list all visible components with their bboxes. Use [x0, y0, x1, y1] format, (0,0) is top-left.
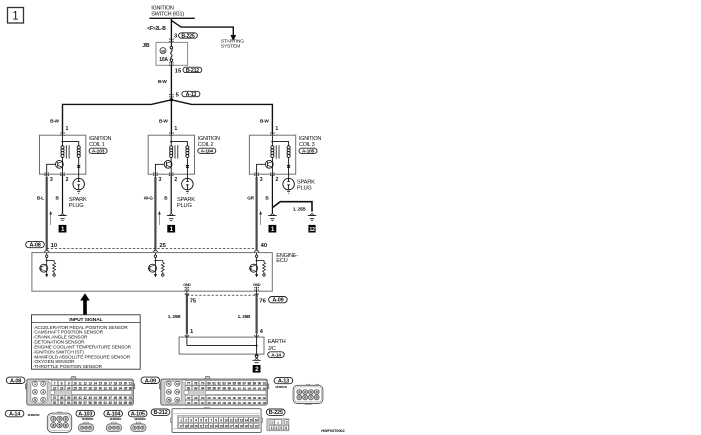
earth J/C pin 1 crossing feet	[185, 335, 187, 337]
connector label B-225	[179, 33, 198, 38]
svg-text:40: 40	[73, 396, 77, 400]
connector B-212 crossing mark	[169, 62, 170, 63]
connector A-08 round pin panel	[31, 381, 47, 403]
coil 1 secondary winding	[63, 142, 79, 146]
connector label A-08	[26, 241, 45, 247]
svg-text:GND: GND	[183, 283, 191, 287]
coil 2 internal node	[170, 135, 172, 141]
coil 3 base wire to pin 3	[257, 164, 266, 174]
ignition coil 1 box	[40, 135, 86, 174]
svg-text:<F>2L-B: <F>2L-B	[147, 26, 166, 32]
svg-text:25: 25	[159, 243, 166, 249]
svg-text:PLUG: PLUG	[297, 185, 312, 191]
svg-text:1. 25B: 1. 25B	[293, 206, 306, 211]
svg-text:79: 79	[201, 381, 205, 385]
connector label A-09	[141, 377, 160, 383]
connector label A-13	[182, 91, 200, 96]
earth J/C exit terminal	[255, 354, 257, 356]
svg-text:72: 72	[176, 382, 180, 386]
svg-text:71: 71	[167, 382, 171, 386]
svg-text:32: 32	[255, 424, 258, 428]
connector label A-104	[104, 410, 123, 416]
connector label A-103	[89, 148, 107, 153]
ground point 12	[308, 225, 315, 233]
svg-text:26: 26	[225, 424, 228, 428]
svg-text:3: 3	[34, 390, 36, 394]
svg-text:A-105: A-105	[302, 149, 315, 155]
svg-text:GR: GR	[247, 196, 254, 201]
connector A-105 body	[136, 422, 140, 424]
ECU driver input terminal at pin	[46, 253, 48, 255]
svg-text:21: 21	[199, 424, 202, 428]
svg-text:2: 2	[42, 382, 44, 386]
junction block J/B box	[156, 42, 188, 65]
wire branch to starting system	[171, 20, 233, 36]
svg-text:10: 10	[73, 381, 77, 385]
svg-text:3: 3	[260, 177, 263, 183]
coil 1 base wire to pin 3	[47, 164, 56, 174]
svg-text:47: 47	[109, 396, 113, 400]
svg-text:13: 13	[88, 381, 92, 385]
spark plug 1 ground	[77, 191, 80, 193]
ECU driver emitter arrow	[45, 274, 48, 277]
svg-text:14: 14	[245, 418, 248, 422]
arrow to starting system	[231, 35, 236, 40]
svg-text:42: 42	[83, 396, 87, 400]
coil 3 primary winding	[271, 142, 273, 146]
engine ECU box	[32, 253, 272, 292]
svg-text:4: 4	[42, 390, 44, 394]
ground point 2	[253, 365, 261, 373]
svg-text:81: 81	[212, 381, 216, 385]
connector B-225 body	[267, 419, 289, 431]
svg-text:PLUG: PLUG	[69, 203, 84, 209]
coil 2 secondary winding	[171, 142, 187, 146]
connector label A-105	[299, 148, 317, 153]
svg-text:5: 5	[280, 426, 282, 430]
input signal arrow to ECU	[80, 293, 90, 300]
svg-text:63: 63	[114, 401, 118, 405]
connector A-09 dashed boundary	[187, 294, 257, 296]
ignition switch bus bar	[149, 17, 194, 19]
svg-text:24: 24	[67, 386, 71, 390]
svg-text:16: 16	[103, 381, 107, 385]
svg-text:12: 12	[83, 381, 87, 385]
svg-text:39: 39	[67, 396, 71, 400]
coil 2 pin 1 crossing mark	[169, 132, 170, 133]
coil 1 core	[65, 145, 67, 158]
ECU driver input terminal at pin	[154, 253, 156, 255]
svg-text:10A: 10A	[159, 57, 168, 63]
svg-text:23: 23	[209, 424, 212, 428]
spark plug 1	[73, 178, 85, 190]
svg-text:46: 46	[103, 396, 107, 400]
ECU driver base lead	[39, 267, 41, 269]
coil 1 internal node	[62, 135, 64, 141]
svg-text:10: 10	[225, 418, 228, 422]
svg-text:1. 25B: 1. 25B	[238, 314, 251, 319]
svg-text:20: 20	[194, 424, 197, 428]
svg-text:A-105: A-105	[131, 412, 145, 418]
coil 2 base wire to pin 3	[155, 164, 164, 174]
spark plug 3 wire	[288, 174, 290, 178]
coil 1 harness direction arrow	[50, 214, 52, 226]
connector B-225 pin grid	[270, 420, 274, 425]
ground wire 1.25B from ECU x=186.9	[186, 291, 188, 295]
wire B-W from fuse	[170, 65, 172, 100]
spark plug 2	[182, 178, 194, 190]
connector A-09 pin grid	[185, 381, 191, 385]
svg-text:12: 12	[235, 418, 238, 422]
svg-text:95: 95	[207, 386, 211, 390]
svg-text:30: 30	[245, 424, 248, 428]
svg-text:GND: GND	[253, 283, 261, 287]
connector label A-14 (inline)	[268, 352, 284, 358]
ECU driver transistor	[256, 261, 258, 275]
svg-text:1: 1	[65, 126, 68, 132]
ECU driver transistor	[46, 261, 48, 275]
coil 2 ground symbol	[169, 213, 173, 215]
svg-text:1. 25B: 1. 25B	[168, 314, 181, 319]
coil 3 core	[275, 145, 277, 158]
svg-text:94: 94	[201, 386, 205, 390]
wire from ignition switch	[170, 18, 172, 42]
ECU pin 40 connector feet	[254, 250, 256, 252]
connector A-103 pins	[80, 426, 84, 430]
svg-text:MU803749: MU803749	[276, 385, 288, 389]
svg-text:24: 24	[214, 424, 217, 428]
svg-text:5: 5	[34, 398, 36, 402]
connector B-212 pin grid	[177, 415, 259, 428]
svg-text:54: 54	[67, 401, 71, 405]
connector A-08 round pins	[33, 382, 38, 387]
svg-text:STARTING: STARTING	[221, 39, 244, 45]
spark plug 2 ground	[186, 191, 189, 193]
svg-text:A-09: A-09	[145, 378, 156, 384]
svg-text:15: 15	[98, 381, 102, 385]
svg-text:19: 19	[119, 381, 123, 385]
svg-text:SYSTEM: SYSTEM	[221, 44, 240, 50]
svg-text:1: 1	[190, 329, 193, 335]
svg-text:15: 15	[175, 68, 182, 74]
coil 1 pin 1 crossing mark	[60, 132, 61, 133]
svg-text:1: 1	[174, 126, 177, 132]
svg-text:66: 66	[129, 401, 133, 405]
connector A-103 body	[84, 422, 88, 424]
connector A-104 pins	[108, 426, 112, 430]
svg-text:B-225: B-225	[269, 410, 283, 416]
svg-text:SWITCH (IG1): SWITCH (IG1)	[151, 11, 184, 17]
coil 2 harness direction arrow	[158, 214, 160, 226]
svg-text:75: 75	[190, 299, 197, 305]
connector A-105 pins	[133, 426, 137, 430]
coil 3 pin 2 crossing mark	[270, 172, 271, 173]
svg-text:38: 38	[60, 396, 64, 400]
connector A-09 round pin panel	[165, 381, 181, 403]
ground branch wire 1.25B to ground 12	[272, 202, 312, 212]
connector A-09 body	[205, 376, 211, 379]
svg-text:52: 52	[53, 401, 57, 405]
connector label A-103	[76, 410, 95, 416]
svg-text:85: 85	[232, 381, 236, 385]
svg-text:29: 29	[93, 386, 97, 390]
svg-text:HWF03T0062: HWF03T0062	[321, 428, 345, 433]
svg-text:21: 21	[129, 381, 133, 385]
svg-text:29: 29	[240, 424, 243, 428]
coil 3 pin 3 crossing mark	[254, 172, 255, 173]
svg-text:B: B	[265, 196, 269, 201]
svg-text:2: 2	[66, 177, 69, 183]
connector A-08 pin grid	[51, 381, 57, 385]
svg-text:91: 91	[263, 381, 267, 385]
ground wire 1.25B from ECU x=256.6	[256, 291, 258, 295]
svg-text:83: 83	[222, 381, 226, 385]
ECU driver base lead	[249, 267, 251, 269]
coil 3 pin 1 crossing mark	[270, 132, 271, 133]
coil 2 power transistor	[170, 157, 172, 174]
ECU pin 10 connector feet	[44, 250, 46, 252]
svg-text:27: 27	[83, 386, 87, 390]
coil 3 ground symbol	[270, 213, 274, 215]
coil 2 ground wire B	[170, 174, 172, 213]
connector A-08 mold details	[48, 380, 51, 383]
svg-text:44: 44	[93, 396, 97, 400]
svg-text:MU802790: MU802790	[28, 413, 40, 417]
spark plug 3 ground	[287, 191, 290, 193]
connector label A-13	[274, 377, 293, 383]
svg-text:6: 6	[42, 398, 44, 402]
svg-text:22: 22	[204, 424, 207, 428]
svg-text:6: 6	[285, 426, 287, 430]
connector A-104 body	[112, 422, 116, 424]
svg-text:COIL 1: COIL 1	[89, 142, 105, 148]
svg-text:A-09: A-09	[272, 298, 283, 304]
svg-text:B-212: B-212	[154, 410, 168, 416]
svg-text:56: 56	[78, 401, 82, 405]
svg-text:20: 20	[124, 381, 128, 385]
svg-text:J/C: J/C	[268, 346, 276, 352]
svg-text:84: 84	[227, 381, 231, 385]
connector label A-14	[5, 410, 24, 416]
svg-text:99: 99	[227, 386, 231, 390]
svg-text:27: 27	[230, 424, 233, 428]
coil 1 ground symbol	[60, 213, 64, 215]
connector B-212 body	[204, 407, 211, 409]
svg-text:B-W: B-W	[159, 119, 168, 124]
svg-text:80: 80	[207, 381, 211, 385]
connector A-08 dashed boundary	[47, 248, 257, 250]
junction node of B-W feed	[170, 98, 173, 101]
svg-text:22: 22	[53, 386, 57, 390]
svg-text:86: 86	[237, 381, 241, 385]
connector label B-225	[266, 409, 285, 415]
svg-text:25: 25	[220, 424, 223, 428]
svg-text:23: 23	[60, 386, 64, 390]
svg-text:COIL 2: COIL 2	[198, 142, 214, 148]
svg-text:90: 90	[258, 381, 262, 385]
svg-text:A-103: A-103	[92, 149, 105, 155]
svg-text:16: 16	[255, 418, 258, 422]
connector A-13 pins	[297, 390, 302, 395]
ECU driver pull resistor	[257, 261, 264, 263]
svg-text:53: 53	[60, 401, 64, 405]
svg-text:18: 18	[184, 424, 187, 428]
svg-text:PLUG: PLUG	[177, 203, 192, 209]
spark plug 2 wire	[186, 174, 188, 178]
coil 3 harness direction arrow	[260, 214, 262, 226]
connector label A-105	[128, 410, 147, 416]
ECU driver input terminal at pin	[256, 253, 258, 255]
svg-text:W-G: W-G	[144, 196, 153, 201]
svg-text:EARTH: EARTH	[268, 339, 286, 345]
earth J/C pin 4 crossing feet	[254, 335, 256, 337]
svg-text:18: 18	[114, 381, 118, 385]
svg-text:A-104: A-104	[201, 149, 214, 155]
svg-text:92: 92	[187, 386, 191, 390]
svg-text:3: 3	[50, 177, 53, 183]
svg-text:25: 25	[73, 386, 77, 390]
svg-text:60: 60	[98, 401, 102, 405]
connector label B-212	[151, 409, 170, 415]
svg-text:45: 45	[98, 396, 102, 400]
ECU driver transistor	[154, 261, 156, 275]
svg-text:75: 75	[167, 398, 171, 402]
B-W bus wire to coil 1	[63, 100, 172, 135]
svg-text:B-W: B-W	[260, 119, 269, 124]
svg-text:93: 93	[194, 386, 198, 390]
svg-text:A-13: A-13	[278, 379, 289, 385]
svg-text:10: 10	[51, 243, 57, 249]
connector label A-09 (inline)	[269, 297, 288, 303]
svg-text:2: 2	[286, 421, 288, 425]
B-W wire to coil 2	[170, 100, 172, 135]
fuse F38 symbol	[170, 42, 172, 46]
svg-text:1: 1	[12, 11, 18, 23]
svg-text:88: 88	[248, 381, 252, 385]
svg-text:59: 59	[93, 401, 97, 405]
svg-text:3: 3	[271, 426, 273, 430]
svg-text:43: 43	[88, 396, 92, 400]
svg-text:77: 77	[187, 381, 191, 385]
svg-text:38: 38	[161, 49, 165, 53]
connector A-09 round pins	[167, 382, 172, 387]
coil 2 core	[174, 145, 176, 158]
connector B-225 crossing mark	[169, 39, 170, 40]
sheet number box 1	[8, 8, 24, 24]
svg-text:35: 35	[124, 386, 128, 390]
svg-text:A-08: A-08	[10, 378, 21, 384]
B-W bus wire to coil 3	[171, 100, 272, 135]
svg-text:58: 58	[88, 401, 92, 405]
svg-text:17: 17	[109, 381, 113, 385]
svg-text:MU802952: MU802952	[110, 417, 122, 421]
svg-text:62: 62	[109, 401, 113, 405]
svg-text:15: 15	[250, 418, 253, 422]
spark plug 1 wire	[78, 174, 80, 178]
coil 3 secondary winding	[272, 142, 288, 146]
svg-text:34: 34	[119, 386, 123, 390]
coil 1 ground wire B	[62, 174, 64, 213]
svg-text:89: 89	[253, 381, 257, 385]
svg-text:26: 26	[78, 386, 82, 390]
svg-text:J/B: J/B	[142, 43, 150, 49]
svg-text:MU802952: MU802952	[134, 417, 146, 421]
svg-text:73: 73	[167, 390, 171, 394]
svg-text:87: 87	[243, 381, 247, 385]
ground point 1 (coil 2)	[167, 225, 175, 233]
ECU driver base lead	[148, 267, 150, 269]
ground point 1 (coil 3)	[269, 225, 277, 233]
svg-text:B-225: B-225	[181, 33, 194, 39]
ignition coil 2 box	[148, 135, 194, 174]
connector label A-08	[6, 377, 25, 383]
coil 2 secondary diode	[186, 157, 188, 174]
svg-text:INPUT SIGNAL: INPUT SIGNAL	[69, 317, 102, 323]
coil 3 signal wire GR to ECU	[256, 174, 258, 177]
coil 1 pin 3 crossing mark	[44, 172, 45, 173]
ECU driver pull resistor	[47, 261, 54, 263]
connector A-09 mold details	[182, 380, 185, 383]
ignition coil 3 box	[249, 135, 295, 174]
svg-text:96: 96	[212, 386, 216, 390]
svg-text:13: 13	[240, 418, 243, 422]
coil 2 primary winding	[170, 142, 172, 146]
svg-text:17: 17	[179, 424, 182, 428]
input signal box	[32, 315, 141, 369]
svg-text:48: 48	[114, 396, 118, 400]
svg-text:MU802952: MU802952	[82, 417, 94, 421]
svg-text:14: 14	[93, 381, 97, 385]
svg-text:65: 65	[124, 401, 128, 405]
earth ground symbol	[255, 358, 259, 360]
spark plug 3	[283, 178, 295, 190]
coil 3 power transistor	[271, 157, 273, 174]
svg-text:1: 1	[34, 382, 36, 386]
coil 3 internal node	[271, 135, 273, 141]
svg-text:98: 98	[222, 386, 226, 390]
svg-text:61: 61	[103, 401, 107, 405]
coil 1 signal wire B-L to ECU	[46, 174, 48, 177]
svg-text:A-13: A-13	[186, 92, 197, 98]
ground 12 symbol	[310, 213, 314, 215]
svg-text:40: 40	[261, 243, 267, 249]
svg-text:B-212: B-212	[186, 68, 199, 74]
ground point 1 (coil 1)	[59, 225, 67, 233]
svg-text:30: 30	[98, 386, 102, 390]
svg-text:11: 11	[78, 381, 81, 385]
coil 1 pin 2 crossing mark	[60, 172, 61, 173]
ECU pin 25 connector feet	[153, 250, 155, 252]
ECU driver pull resistor	[155, 261, 162, 263]
connector A-13 crossing mark	[169, 94, 170, 95]
svg-text:49: 49	[119, 396, 123, 400]
coil 1 primary winding	[62, 142, 64, 146]
svg-text:·THROTTLE POSITION SENSOR: ·THROTTLE POSITION SENSOR	[33, 364, 103, 370]
coil 2 pin 2 crossing mark	[169, 172, 170, 173]
coil 1 power transistor	[62, 157, 64, 174]
svg-text:B-W: B-W	[158, 79, 167, 84]
svg-text:37: 37	[53, 396, 57, 400]
svg-text:ECU: ECU	[276, 258, 287, 264]
svg-text:B-L: B-L	[37, 196, 44, 201]
svg-text:A-103: A-103	[78, 412, 92, 418]
svg-text:A-14: A-14	[271, 352, 281, 358]
svg-text:57: 57	[83, 401, 87, 405]
svg-text:33: 33	[114, 386, 118, 390]
svg-text:51: 51	[129, 396, 133, 400]
svg-text:A-14: A-14	[9, 412, 21, 418]
connector A-13 body	[307, 384, 311, 385]
